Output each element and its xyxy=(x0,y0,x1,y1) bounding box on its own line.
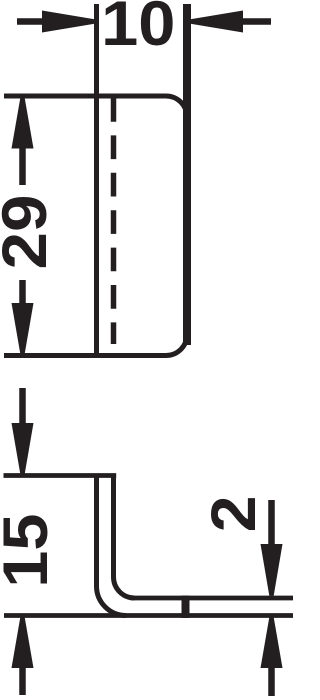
dim 15: lower arrow tail xyxy=(19,667,26,695)
dim 10: left arrow tail xyxy=(17,18,43,25)
part P1 top view: right folded edge (thick) xyxy=(183,4,191,345)
part P1 top view: top edge with left extension and rounded top-right corner xyxy=(4,96,187,117)
dim 2: lower arrowhead pointing up xyxy=(261,617,283,668)
dim 15: upper arrowhead pointing down xyxy=(12,423,34,474)
dim 29: upper arrowhead pointing up xyxy=(12,98,34,149)
part P1 side view: outer bottom edge with extensions both sides for dim 15 and dim 2 xyxy=(4,613,293,618)
part P1 side view: right end cap (thick) xyxy=(182,596,190,619)
dim 2: upper arrowhead pointing down xyxy=(261,544,283,596)
dim 10: right arrowhead pointing left xyxy=(191,11,244,33)
svg-text:15: 15 xyxy=(0,514,61,588)
svg-text:10: 10 xyxy=(101,0,175,59)
dim 29: lower tail xyxy=(19,280,26,304)
svg-text:29: 29 xyxy=(0,195,60,270)
part P1 side view: inner left edge and inner elbow curve xyxy=(114,476,135,598)
dim 10: right arrow tail xyxy=(242,18,271,25)
dim 10: left arrowhead pointing right xyxy=(42,11,95,33)
dim 15: lower arrowhead pointing up xyxy=(12,617,34,668)
part P1 top view: bottom edge with left extension and rounded bottom-right corner xyxy=(4,335,187,356)
part P1 top view: hidden bend line (dashed) xyxy=(111,98,117,344)
dim 29: upper tail xyxy=(19,148,26,185)
part P1 side view: outer left edge and outer elbow curve xyxy=(97,476,127,616)
svg-text:2: 2 xyxy=(198,496,268,533)
dim 29: lower arrowhead pointing down xyxy=(12,303,34,354)
dim 15: upper arrow tail xyxy=(19,388,26,425)
part P1 top view: left edge with extension line for dim 10 xyxy=(94,4,99,357)
dim 2: lower arrow tail xyxy=(268,667,275,696)
part P1 side view: inner bottom edge with right extension for dim 2 xyxy=(131,596,293,601)
dim 2: upper arrow tail xyxy=(268,500,275,545)
part P1 side view: top cap line with left extension for dim 15 xyxy=(4,473,117,478)
